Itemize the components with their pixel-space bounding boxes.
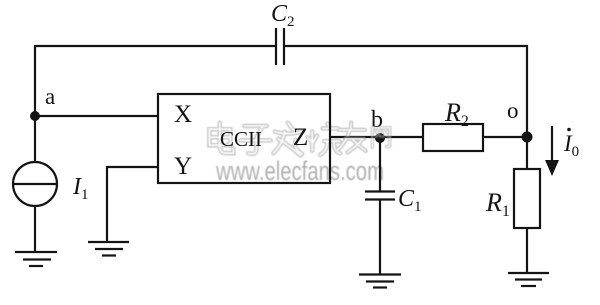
- svg-text:o: o: [507, 98, 519, 123]
- node o: [522, 132, 533, 143]
- watermark glyph 4: [307, 124, 340, 155]
- wire Y to ground: [107, 167, 158, 242]
- wire C1 to ground: [379, 200, 381, 275]
- arrow i0 head: [545, 160, 559, 176]
- svg-text:CCII: CCII: [220, 127, 262, 151]
- current source I1: [13, 162, 57, 206]
- wire top left segment (a up and across to C2): [35, 46, 276, 117]
- svg-text:www.elecfans.com: www.elecfans.com: [215, 156, 384, 186]
- svg-text:a: a: [45, 84, 55, 109]
- ground (below C1): [359, 275, 401, 288]
- svg-text:Y: Y: [174, 153, 192, 180]
- wire a to I1 top: [34, 116, 36, 162]
- capacitor C1: [365, 192, 395, 200]
- wire a to X: [35, 115, 158, 117]
- ground (below R1): [508, 273, 549, 286]
- resistor R2: [423, 124, 483, 151]
- resistor R1: [514, 169, 540, 228]
- capacitor C2: [276, 28, 284, 65]
- svg-text:X: X: [174, 101, 192, 128]
- watermark glyph 3: [273, 123, 302, 156]
- node b: [375, 133, 385, 143]
- wire o to R1: [526, 137, 528, 169]
- wire b down to C1: [379, 137, 381, 192]
- CCII block U1: [158, 94, 330, 183]
- wire Z to R2: [330, 136, 423, 138]
- arrow i0 line: [551, 126, 553, 162]
- wire top right segment (C2 to o down): [284, 46, 527, 138]
- wire I1 bottom to ground: [34, 206, 36, 252]
- node a: [30, 111, 40, 121]
- watermark glyph highlights: [209, 123, 233, 153]
- watermark: [0, 0, 1, 1]
- ground (below Y wire): [88, 242, 129, 256]
- svg-text:Z: Z: [293, 124, 308, 151]
- watermark glyph 1: [209, 123, 233, 153]
- watermark glyph 6: [372, 128, 390, 147]
- watermark glyph 2: [240, 126, 270, 154]
- watermark overlay near node b: [337, 123, 389, 153]
- ground (below I1): [15, 252, 57, 266]
- wire R2 to o: [483, 136, 527, 138]
- wire R1 to ground: [526, 228, 528, 273]
- watermark glyph 5: [337, 123, 365, 153]
